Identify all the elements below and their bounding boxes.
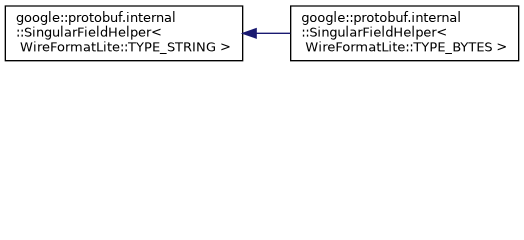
label text: left node line 1 "google::protobuf.internal" xyxy=(17,11,175,25)
wire: inheritance edge from TYPE_BYTES node to TYPE_STRING node xyxy=(257,32,291,34)
label text: left node line 2 "::SingularFieldHelper<" xyxy=(18,26,161,40)
arrowhead pointing at base class node xyxy=(243,29,256,38)
label text: right node line 1 "google::protobuf.internal" xyxy=(302,11,460,25)
label text: right node line 3 "WireFormatLite::TYPE_BYTES >" xyxy=(306,41,506,54)
label text: right node line 2 "::SingularFieldHelper<" xyxy=(303,26,446,40)
node box: google::protobuf.internal::SingularFieldHelper< WireFormatLite::TYPE_BYTES > xyxy=(291,6,519,61)
label text: left node line 3 "WireFormatLite::TYPE_STRING >" xyxy=(20,41,229,54)
node box: google::protobuf.internal::SingularFieldHelper< WireFormatLite::TYPE_STRING > xyxy=(5,6,242,61)
